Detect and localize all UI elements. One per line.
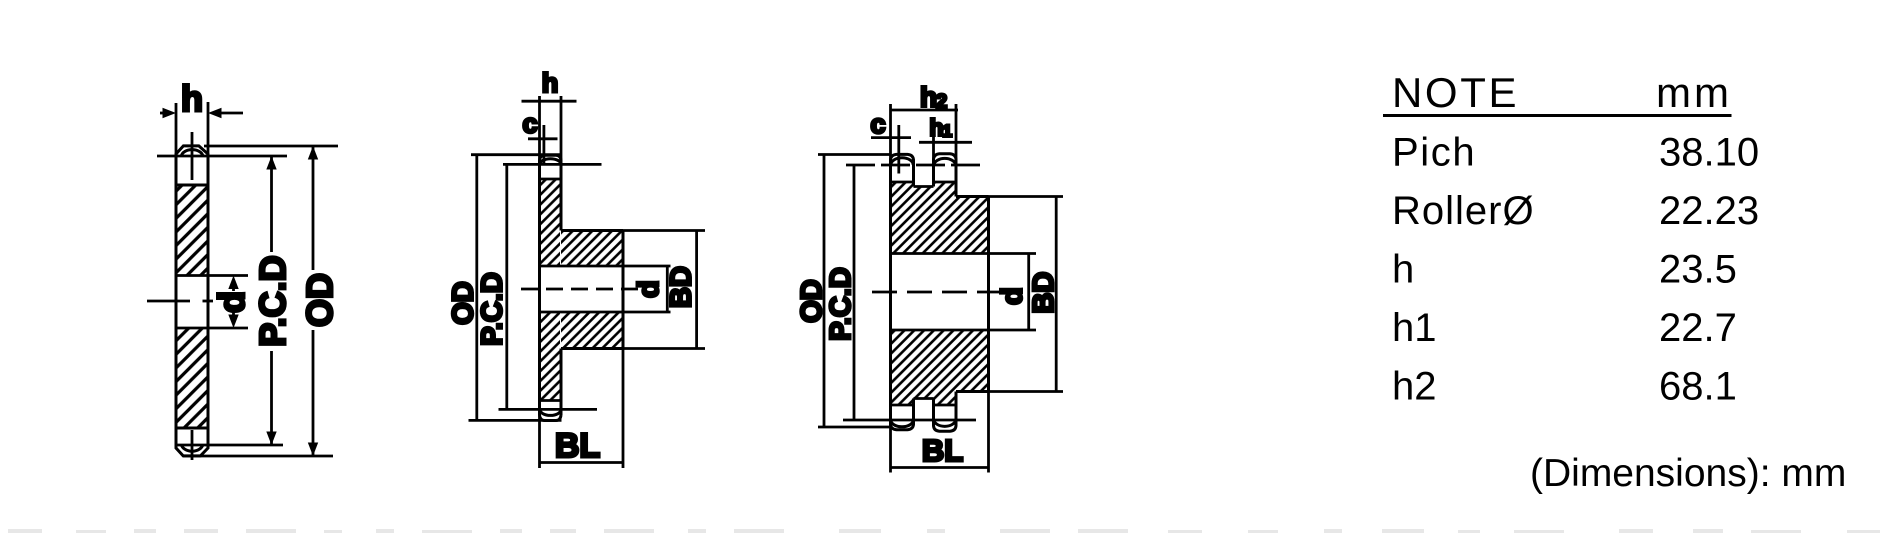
sprocket2 bore bottom line: [540, 311, 671, 314]
dimension PCD sprocket3: [853, 165, 856, 420]
svg-text:OD: OD: [796, 279, 828, 323]
sprocket2 hatch hub lower: [561, 312, 622, 349]
sprocket3 hatch lower left: [892, 330, 957, 405]
svg-text:BD: BD: [1028, 272, 1060, 314]
dimension h sprocket2: [522, 96, 577, 167]
dimension d sprocket3: [1027, 254, 1030, 331]
sprocket3 tooth bottom left: [891, 399, 914, 430]
sprocket3 body left edge: [889, 182, 892, 405]
table row Pich: [1392, 131, 1759, 175]
svg-text:d: d: [633, 280, 665, 298]
dimension c sprocket3: [871, 136, 911, 139]
sprocket3 chamfer line: [897, 125, 900, 174]
dimension BD sprocket2: [695, 231, 698, 349]
sprocket3 pitch line bottom: [843, 419, 976, 422]
sprocket3 hub top edge: [956, 195, 989, 198]
sprocket3 tooth top left: [891, 154, 914, 186]
svg-text:h: h: [542, 68, 559, 98]
svg-text:(Dimensions): mm: (Dimensions): mm: [1530, 452, 1846, 495]
sprocket1 hatch upper: [176, 185, 208, 275]
sprocket2 centerline: [521, 288, 645, 291]
sprocket2 hatch plate upper: [541, 179, 561, 266]
dimension BL sprocket3: [891, 392, 989, 473]
svg-text:h: h: [930, 115, 944, 141]
sprocket3 OD tangent top: [818, 153, 891, 156]
sprocket3 hub bottom edge: [956, 390, 989, 393]
dimension d sprocket1: [228, 276, 238, 329]
svg-text:h: h: [920, 82, 937, 113]
dimension PCD sprocket1: [266, 156, 276, 445]
svg-text:mm: mm: [1656, 69, 1732, 116]
sprocket2 root lines: [540, 179, 562, 401]
dimension PCD sprocket2: [505, 164, 508, 409]
dimension BD sprocket3: [1055, 197, 1058, 392]
dimension OD sprocket2: [475, 155, 478, 421]
sprocket3 hatch upper right: [956, 197, 989, 254]
dimension h sprocket1: [160, 102, 243, 161]
svg-text:1: 1: [943, 122, 952, 141]
sprocket1 bore top line: [176, 274, 248, 277]
svg-text:23.5: 23.5: [1659, 248, 1737, 292]
svg-text:BL: BL: [555, 427, 600, 465]
sprocket1 hatch lower: [176, 328, 208, 428]
dimension h1 sprocket3: [919, 134, 972, 160]
sprocket1 OD tangent top: [204, 145, 338, 148]
svg-text:d: d: [211, 291, 252, 313]
sprocket3 hatch upper left: [892, 182, 957, 254]
sprocket2 pitch line bottom: [499, 408, 598, 411]
sprocket3 valley notch top: [914, 180, 934, 187]
svg-text:22.23: 22.23: [1659, 189, 1759, 233]
sprocket1 pitch line top: [157, 155, 287, 158]
table row Roller: [1392, 189, 1759, 233]
sprocket1 plate outline: [176, 146, 208, 456]
svg-text:OD: OD: [299, 273, 340, 327]
sprocket1 tooth arc bottom: [181, 444, 203, 451]
sprocket3 pitch line top: [846, 164, 983, 167]
sprocket3 hub top ext: [989, 195, 1064, 198]
table header underline: [1383, 114, 1732, 117]
svg-text:P.C.D: P.C.D: [477, 272, 509, 346]
svg-text:RollerØ: RollerØ: [1392, 189, 1535, 233]
sprocket3 OD tangent bottom: [818, 426, 891, 429]
svg-text:22.7: 22.7: [1659, 306, 1737, 350]
sprocket2 bore top line: [540, 265, 671, 268]
svg-text:BD: BD: [666, 266, 698, 308]
dimension BL sprocket2: [540, 349, 624, 469]
svg-text:c: c: [870, 109, 885, 139]
dimension OD sprocket3: [823, 155, 826, 428]
bottom cropped text remnants: [8, 529, 1880, 533]
svg-text:c: c: [522, 109, 537, 139]
svg-text:P.C.D: P.C.D: [252, 255, 293, 346]
dimension d sprocket2: [666, 266, 669, 312]
sprocket1 centerline: [147, 132, 213, 460]
dimension h2 sprocket3: [890, 104, 958, 160]
sprocket2 pitch line top: [503, 163, 602, 166]
sprocket3 bore bottom line: [891, 329, 1037, 332]
table row h1: [1392, 306, 1737, 350]
sprocket2 chamfer line: [543, 125, 546, 164]
svg-text:2: 2: [936, 91, 947, 113]
svg-text:h1: h1: [1392, 306, 1437, 350]
sprocket3 centerline: [872, 291, 1008, 294]
sprocket1 tooth arc top: [181, 150, 203, 156]
sprocket2 hub top ext: [623, 229, 705, 232]
dimension OD sprocket1: [308, 146, 318, 456]
sprocket3 tooth bottom right: [934, 392, 957, 432]
table row h: [1392, 248, 1737, 292]
sprocket2 OD tangent top: [471, 153, 562, 156]
sprocket1 OD tangent bottom: [183, 455, 333, 458]
sprocket2 body outline: [540, 155, 624, 420]
svg-text:NOTE: NOTE: [1392, 69, 1519, 116]
sprocket3 body right edge: [987, 197, 990, 392]
sprocket2 OD tangent bottom: [469, 419, 562, 422]
dimension c sprocket2: [528, 137, 558, 140]
sprocket3 bore top line: [891, 252, 1037, 255]
sprocket3 hub bottom ext: [989, 390, 1064, 393]
svg-text:d: d: [997, 287, 1029, 305]
svg-text:68.1: 68.1: [1659, 365, 1737, 409]
sprocket3 hatch lower right: [956, 330, 989, 392]
svg-text:P.C.D: P.C.D: [825, 267, 857, 341]
label h2 sprocket3: [920, 82, 947, 114]
sprocket1 bore bottom line: [176, 327, 248, 330]
svg-text:h2: h2: [1392, 365, 1437, 409]
svg-text:h: h: [181, 78, 203, 119]
sprocket3 valley notch bottom: [914, 399, 934, 407]
svg-text:OD: OD: [448, 281, 480, 325]
label h1 sprocket3: [930, 115, 952, 141]
sprocket2 hatch plate lower: [541, 312, 561, 401]
svg-text:38.10: 38.10: [1659, 131, 1759, 175]
svg-text:Pich: Pich: [1392, 131, 1476, 175]
svg-text:BL: BL: [922, 433, 963, 468]
svg-text:h: h: [1392, 248, 1414, 292]
sprocket2 hub bottom ext: [623, 347, 705, 350]
table row h2: [1392, 365, 1737, 409]
sprocket3 tooth top right: [934, 154, 957, 197]
sprocket1 pitch line bottom: [176, 444, 283, 447]
sprocket2 hatch hub upper: [561, 232, 622, 267]
